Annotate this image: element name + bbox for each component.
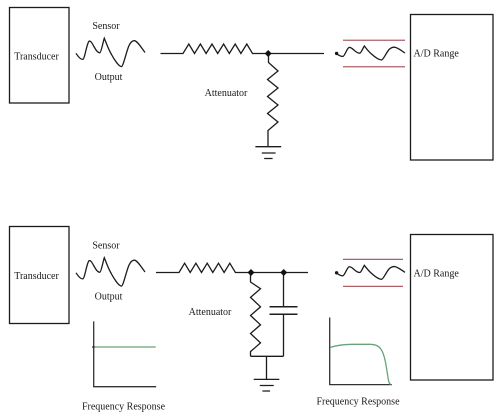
- svg-text:Frequency Response: Frequency Response: [316, 396, 400, 407]
- svg-text:A/D Range: A/D Range: [414, 269, 460, 280]
- svg-text:Sensor: Sensor: [92, 21, 120, 32]
- svg-text:Transducer: Transducer: [14, 271, 59, 282]
- svg-text:Attenuator: Attenuator: [205, 88, 248, 99]
- svg-text:Output: Output: [95, 72, 123, 83]
- svg-text:Sensor: Sensor: [92, 240, 120, 251]
- svg-text:Transducer: Transducer: [14, 52, 59, 63]
- svg-text:Frequency Response: Frequency Response: [82, 401, 166, 412]
- svg-text:A/D Range: A/D Range: [414, 49, 460, 60]
- svg-text:Output: Output: [95, 292, 123, 303]
- svg-text:Attenuator: Attenuator: [189, 307, 232, 318]
